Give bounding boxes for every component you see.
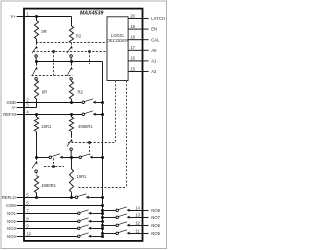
- svg-text:12: 12: [135, 220, 140, 225]
- svg-text:CAL: CAL: [151, 37, 160, 42]
- wire NO1 to bus: [91, 213, 102, 215]
- bus junction NO6: [101, 224, 104, 227]
- svg-text:4080R1: 4080R1: [78, 124, 93, 129]
- control dash V5 (decoder drop): [126, 81, 128, 188]
- svg-text:REFLO: REFLO: [2, 195, 17, 200]
- control dash V3 (decoder drop): [115, 81, 117, 143]
- switch S3: [35, 67, 38, 70]
- switch NO8: [116, 209, 119, 212]
- wire NO4 to bus: [91, 236, 102, 238]
- GND to V- tie: [36, 103, 38, 108]
- svg-text:MAX4539: MAX4539: [80, 10, 104, 16]
- bus junction COM: [101, 204, 104, 207]
- pin 5 REFLO stub: [17, 197, 24, 199]
- pin 4 REFHI stub: [17, 114, 24, 116]
- wire NO2 to bus: [91, 221, 102, 223]
- svg-text:NO1: NO1: [7, 211, 16, 216]
- pin 15 A2 wire: [128, 71, 142, 73]
- svg-text:EN: EN: [151, 27, 157, 32]
- pin 8 NO2 stub: [17, 221, 24, 223]
- resistor R2 lower: [70, 80, 72, 81]
- control dash junction B: [88, 50, 91, 53]
- wire tap1 to S10: [36, 158, 38, 160]
- svg-text:18: 18: [130, 35, 135, 40]
- svg-text:11: 11: [135, 228, 140, 233]
- svg-text:NO8: NO8: [151, 208, 160, 213]
- control dash V4: [89, 143, 91, 156]
- switch NO2: [78, 220, 81, 223]
- control dash junction A: [52, 50, 55, 53]
- REFHI rail wire: [24, 114, 82, 116]
- node line wire: [37, 61, 103, 63]
- pin 16 A1 wire: [128, 60, 142, 62]
- wire node to S3: [36, 62, 38, 66]
- svg-text:NO4: NO4: [7, 234, 16, 239]
- switch S7: [70, 139, 73, 142]
- svg-text:20: 20: [130, 13, 135, 18]
- bus junction REFHI: [101, 113, 104, 116]
- svg-text:16: 16: [130, 56, 135, 61]
- wire node to S4: [71, 62, 73, 66]
- REFLO rail wire: [24, 197, 75, 199]
- switch NO1: [78, 212, 81, 215]
- switch S6 (REFHI cal): [82, 113, 85, 116]
- pin 10 NO4 stub: [17, 236, 24, 238]
- pin 18 CAL wire: [128, 39, 142, 41]
- svg-text:15R1: 15R1: [77, 174, 88, 179]
- NO7 wire from bus: [103, 217, 117, 219]
- svg-text:3R: 3R: [41, 29, 46, 34]
- svg-text:10: 10: [26, 232, 31, 237]
- switch S2 (R2 tap): [70, 46, 73, 49]
- bus junction NO7: [101, 216, 104, 219]
- svg-text:15: 15: [130, 66, 135, 71]
- wire S6 to bus: [96, 114, 103, 116]
- NO3 rail wire: [24, 228, 78, 230]
- resistor 3R: [34, 21, 38, 40]
- resistor 4080R1 upper: [71, 115, 73, 118]
- node REFLO left: [35, 196, 38, 199]
- svg-text:A0: A0: [151, 48, 157, 53]
- control dash junction D: [52, 165, 55, 168]
- switch S9 (tap2): [79, 156, 82, 159]
- NO6 wire from bus: [103, 225, 117, 227]
- bus junction NO4: [101, 235, 104, 238]
- svg-text:17: 17: [130, 45, 135, 50]
- switch S10: [35, 161, 38, 164]
- svg-text:NO7: NO7: [151, 215, 160, 220]
- bus junction REFLO: [101, 196, 104, 199]
- wire S5 to bus: [96, 102, 103, 104]
- svg-text:DECODER: DECODER: [107, 38, 129, 43]
- node tap1 junction: [35, 156, 38, 159]
- wire S1 to node line: [35, 57, 37, 61]
- control dash H4: [68, 142, 116, 144]
- svg-text:V-: V-: [12, 105, 17, 110]
- control dash H5: [79, 187, 127, 189]
- COM bus vertical: [102, 62, 104, 237]
- resistor 4080R1 lower: [35, 173, 37, 174]
- switch S11 (REFLO cal): [75, 196, 78, 199]
- wire NO8 to pin: [130, 210, 143, 212]
- bus junction NO2: [101, 220, 104, 223]
- node tap2 junction: [70, 156, 73, 159]
- pin 3 V- stub: [17, 107, 24, 109]
- resistor 15R1 lower: [71, 158, 73, 170]
- bus junction GND: [101, 101, 104, 104]
- bus junction NO5: [101, 232, 104, 235]
- node REFLO right: [70, 196, 73, 199]
- V+ rail wire: [24, 16, 72, 18]
- NO4 rail wire: [24, 236, 78, 238]
- wire NO6 to pin: [130, 225, 143, 227]
- COM rail wire: [24, 205, 103, 207]
- svg-text:NO5: NO5: [151, 231, 160, 236]
- svg-text:LATCH: LATCH: [151, 16, 165, 21]
- node junction left: [35, 60, 38, 63]
- control dash junction C: [88, 141, 91, 144]
- svg-text:REFHI: REFHI: [3, 112, 16, 117]
- switch NO6: [116, 224, 119, 227]
- svg-text:A1: A1: [151, 59, 157, 64]
- svg-text:4080R1: 4080R1: [41, 183, 56, 188]
- svg-text:6R: 6R: [42, 89, 47, 94]
- pin 7 NO1 stub: [17, 213, 24, 215]
- node R2-GND junction: [70, 101, 73, 104]
- bus junction NO8: [101, 209, 104, 212]
- pin 2 GND stub: [17, 102, 24, 104]
- switch NO4: [78, 235, 81, 238]
- NO2 rail wire: [24, 221, 78, 223]
- switch S4: [70, 67, 73, 70]
- node junction right: [70, 60, 73, 63]
- calA wire 2: [63, 157, 79, 159]
- calA wire 3: [93, 157, 103, 159]
- pin 17 A0 wire: [128, 49, 142, 51]
- switch NO5: [116, 232, 119, 235]
- bus junction calA: [101, 156, 104, 159]
- svg-text:NO2: NO2: [7, 219, 16, 224]
- pin 20 LATCH wire: [128, 18, 142, 20]
- pin 19 EN wire: [128, 28, 142, 30]
- NO8 wire from bus: [103, 210, 117, 212]
- svg-text:19: 19: [130, 24, 135, 29]
- wire NO5 to pin: [130, 233, 143, 235]
- calA wire 1: [37, 157, 50, 159]
- logic decoder U1 box: [107, 17, 128, 81]
- control dash V6: [53, 158, 55, 166]
- pin 6 COM stub: [17, 205, 24, 207]
- switch NO3: [78, 227, 81, 230]
- resistor 6R: [35, 80, 37, 81]
- IC body outline: [24, 9, 143, 241]
- svg-text:R2: R2: [76, 33, 82, 38]
- switch S1 (3R tap): [35, 46, 38, 49]
- svg-text:COM: COM: [6, 203, 16, 208]
- control dash V2: [89, 52, 91, 65]
- switch S8 (tap1): [49, 156, 52, 159]
- node REFHI right: [70, 113, 73, 116]
- wire S2 to node line: [70, 57, 72, 61]
- svg-text:15R1: 15R1: [41, 124, 52, 129]
- bus junction NO1: [101, 212, 104, 215]
- control dash H6: [44, 166, 64, 168]
- svg-text:A2: A2: [151, 69, 157, 74]
- node REFHI left: [35, 113, 38, 116]
- outer figure border: [1, 1, 167, 249]
- svg-text:NO3: NO3: [7, 226, 16, 231]
- svg-text:R2: R2: [78, 89, 84, 94]
- wire S11 to bus: [89, 197, 103, 199]
- resistor R2 upper: [69, 26, 73, 43]
- GND rail wire: [24, 102, 82, 104]
- wire V+ corner down: [71, 17, 73, 27]
- wire NO7 to pin: [130, 217, 143, 219]
- NO1 rail wire: [24, 213, 78, 215]
- node V+ junction: [35, 15, 38, 18]
- pin 9 NO3 stub: [17, 228, 24, 230]
- wire S7 to calA row: [70, 151, 72, 158]
- page background: [0, 0, 168, 250]
- wire NO3 to bus: [91, 228, 102, 230]
- wire V- row: [24, 107, 37, 109]
- control dash H1: [36, 42, 107, 44]
- switch S5 (GND cal): [82, 101, 85, 104]
- NO5 wire from bus: [103, 233, 117, 235]
- pin 1 V+ stub: [17, 16, 24, 18]
- control dash H3: [32, 75, 73, 77]
- resistor 15R1: [36, 115, 38, 118]
- switch NO7: [116, 216, 119, 219]
- bus junction NO3: [101, 227, 104, 230]
- svg-text:14: 14: [135, 205, 140, 210]
- control dash V1: [53, 52, 55, 76]
- svg-text:13: 13: [135, 212, 140, 217]
- svg-text:NO6: NO6: [151, 223, 160, 228]
- control dash H2: [33, 51, 107, 53]
- svg-text:V+: V+: [11, 14, 17, 19]
